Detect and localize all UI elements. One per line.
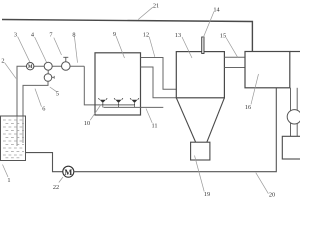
svg-text:3: 3: [14, 32, 17, 39]
svg-text:2: 2: [1, 58, 4, 65]
tank 1 liquid hatching: [3, 120, 24, 158]
svg-text:M: M: [64, 167, 72, 177]
svg-text:9: 9: [113, 31, 116, 38]
wire: upper duct 12 from box 9 to vessel 13: [141, 58, 177, 90]
leader 6: [35, 89, 42, 107]
wire: dip tube 6 from valve 5 into tank: [23, 81, 48, 116]
svg-text:M: M: [28, 65, 33, 70]
leader 1: [3, 165, 9, 178]
leader 12: [149, 37, 155, 57]
svg-text:16: 16: [245, 104, 251, 111]
leader 14: [203, 12, 214, 38]
svg-text:15: 15: [220, 33, 226, 40]
wire: manifold riser joints: [102, 105, 104, 108]
svg-text:12: 12: [143, 32, 149, 39]
svg-text:1: 1: [7, 177, 10, 184]
tank 1: [1, 116, 26, 161]
svg-text:5: 5: [56, 90, 59, 97]
pump M 22: [63, 166, 74, 177]
box 18 bottom-right collector: [282, 136, 301, 159]
leader 16: [251, 74, 259, 104]
pipe 14 on vessel top: [202, 37, 204, 54]
leader 9: [116, 36, 125, 58]
svg-text:21: 21: [153, 3, 159, 10]
wire: lower duct from box 9 to vessel 13 cone top: [141, 67, 177, 98]
wire: connector 15 lower line: [224, 67, 245, 69]
leader 22: [59, 177, 63, 183]
leader 11: [146, 109, 152, 123]
leader 2: [5, 63, 16, 79]
valve 5 with side handle: [44, 74, 52, 82]
wire: fan duct left: [290, 88, 292, 137]
wire: connector 15 upper line: [224, 56, 245, 58]
fan 17: [287, 110, 301, 124]
wire: main pipe between pump 3, valve 4, valve 7: [26, 65, 84, 67]
nozzle 10a: [98, 98, 107, 105]
svg-text:20: 20: [269, 192, 275, 199]
leader 15: [226, 38, 238, 58]
svg-text:10: 10: [84, 120, 90, 127]
svg-text:19: 19: [204, 191, 210, 198]
leader 13: [182, 37, 192, 58]
box 9 spray chamber: [95, 53, 141, 115]
svg-text:7: 7: [49, 32, 52, 39]
svg-text:6: 6: [42, 105, 45, 112]
vessel 13 cone: [176, 98, 195, 142]
wire: branch valve 4 to valve 5: [47, 70, 49, 74]
nozzle 10b: [114, 98, 123, 105]
leader 10: [90, 105, 101, 121]
pump M P3: [27, 62, 34, 69]
wire: bottom return line 20 up to box 16: [74, 88, 276, 172]
nozzle 10c: [130, 98, 139, 105]
wire: fan duct right: [296, 88, 298, 137]
svg-text:11: 11: [151, 123, 157, 130]
leader 3: [18, 37, 30, 63]
valve 4: [44, 62, 52, 70]
box 16: [245, 52, 290, 88]
svg-text:14: 14: [213, 7, 220, 14]
vessel 13 body: [176, 52, 224, 98]
leader 19: [195, 156, 205, 192]
svg-text:8: 8: [72, 31, 75, 38]
svg-text:22: 22: [53, 184, 59, 191]
wire: suction pipe 2 from tank to pump row: [17, 66, 26, 116]
leader 8: [74, 36, 77, 62]
leader 20: [256, 173, 269, 194]
leader 21: [138, 7, 153, 19]
svg-text:13: 13: [175, 32, 181, 39]
wire: tank outlet to pump 22: [26, 153, 63, 172]
leader 7: [54, 38, 62, 55]
leader 4: [35, 37, 47, 62]
leader 5: [50, 87, 57, 92]
wire: spray manifold 11: [104, 106, 164, 108]
wire: box 16 top edge extension to canvas edge: [290, 51, 300, 53]
wire: top recirculation line 21 to box 16: [2, 20, 252, 52]
valve 7 with T stem: [62, 62, 71, 71]
wire: down pipe 8 into box 9 spray feed: [84, 66, 135, 105]
box 19 collector: [191, 142, 210, 160]
